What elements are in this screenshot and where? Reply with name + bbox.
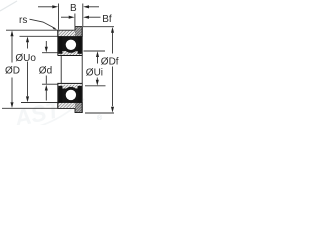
svg-text:Ød: Ød <box>39 66 52 77</box>
Uo top extension line <box>20 35 58 37</box>
lower outer-ring hatched band <box>58 102 75 108</box>
svg-text:Bf: Bf <box>102 14 112 25</box>
bore silhouette left edge <box>60 56 62 84</box>
svg-text:B: B <box>70 3 77 14</box>
upper ball raceway ring <box>63 37 79 53</box>
lower raceway dark band <box>58 89 82 103</box>
rs leader <box>30 19 56 28</box>
upper bore line <box>58 55 82 56</box>
OD dim line upper with up arrow <box>10 30 13 62</box>
Df upper up arrow <box>111 27 114 54</box>
svg-text:ØUo: ØUo <box>15 53 36 64</box>
Df top extension line <box>83 26 114 28</box>
watermark top-left streak <box>0 1 17 11</box>
lower right shield <box>78 86 82 103</box>
OD bottom extension line <box>2 107 58 109</box>
Bf extension line <box>74 14 76 27</box>
B extension line left <box>58 4 60 30</box>
upper left shield <box>58 36 62 53</box>
Uo dim line upper with up arrow <box>26 37 29 49</box>
lower section outline <box>58 83 82 113</box>
OD dim line lower with down arrow <box>10 78 13 109</box>
Uo dim line lower with down arrow <box>26 62 29 103</box>
Ui top extension line <box>84 50 106 52</box>
lower left shield <box>58 86 62 103</box>
upper raceway dark band <box>58 36 82 51</box>
Bf dimension left arrow <box>61 16 75 19</box>
upper section outline <box>58 27 82 56</box>
svg-text:rs: rs <box>19 15 27 26</box>
d bottom extension line <box>42 83 58 85</box>
bore silhouette right edge <box>81 56 83 84</box>
upper ball <box>66 40 76 50</box>
upper inner-ring hatched band <box>58 51 82 55</box>
upper outer-ring hatched band <box>58 30 75 36</box>
d upper outside down arrow <box>45 41 48 53</box>
lower inner-ring hatched band <box>58 85 82 89</box>
Ui bottom extension line <box>85 85 106 87</box>
svg-text:ØUi: ØUi <box>86 68 103 79</box>
Ui upper up arrow <box>96 51 99 63</box>
Ui lower down arrow <box>96 78 99 86</box>
lower bore line <box>58 83 82 84</box>
upper right shield <box>78 36 82 53</box>
watermark swoosh <box>0 90 88 135</box>
lower ball raceway ring <box>63 87 79 103</box>
lower flange hatched column <box>75 102 82 112</box>
Uo bottom extension line <box>21 102 58 104</box>
d top extension line <box>42 52 58 54</box>
d lower stem to bore line <box>45 76 47 84</box>
svg-text:®: ® <box>97 114 103 122</box>
upper section top outline <box>58 27 82 37</box>
OD top extension line <box>6 29 58 31</box>
B dimension left arrow <box>38 5 58 8</box>
lower section bottom outline <box>58 102 82 112</box>
B extension line right <box>82 4 84 27</box>
Df bottom extension line <box>85 112 114 114</box>
upper flange hatched column <box>75 27 82 37</box>
svg-text:ØDf: ØDf <box>101 57 119 68</box>
d lower outside up arrow <box>45 85 48 101</box>
Df lower dim line with down arrow <box>111 67 114 113</box>
svg-text:ØD: ØD <box>5 66 20 77</box>
Bf dimension right arrow <box>83 16 100 19</box>
B dimension right arrow <box>83 5 99 8</box>
lower ball <box>66 90 76 100</box>
